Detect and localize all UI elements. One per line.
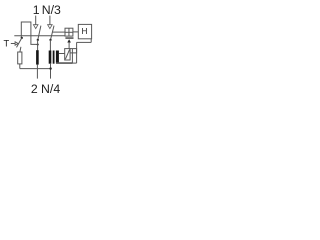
wire bus — [14, 35, 65, 37]
node junction S2 — [49, 39, 51, 41]
regulator small square pair — [70, 49, 77, 53]
wire transformer to lamp box — [73, 31, 78, 33]
svg-text:1: 1 — [33, 3, 40, 17]
svg-text:H: H — [81, 27, 87, 36]
svg-text:T: T — [3, 39, 9, 49]
switch contact S1 blade — [38, 26, 41, 40]
wire choke D to regulator — [59, 53, 65, 55]
bar under transformer box — [65, 37, 73, 38]
regulator diagonal — [65, 49, 69, 59]
wire bottom rail left — [20, 68, 51, 70]
node junction bridge to S1 wire — [37, 43, 39, 45]
winding bar C — [53, 51, 55, 64]
node junction bottom rail — [49, 67, 51, 69]
wire S1 to choke L1 — [37, 40, 39, 51]
wire S2 to converter box — [52, 31, 65, 33]
wire bar A to terminal 2 — [36, 65, 38, 79]
transformer box with cross — [65, 28, 73, 36]
lamp box H — [78, 24, 91, 38]
wire resistor bottom — [19, 64, 21, 69]
wire lamp branch vertical — [76, 42, 78, 63]
svg-text:N/3: N/3 — [42, 3, 61, 17]
node junction S1 — [37, 39, 39, 41]
wire bridge jumper — [21, 22, 37, 44]
winding bar A — [36, 50, 39, 64]
wire S2 to winding W1 — [49, 40, 51, 51]
resistor R1 — [18, 52, 22, 64]
wire feed L down from terminal 1 — [35, 16, 37, 25]
wire lamp return top — [77, 41, 92, 43]
wire bar D to lamp return thick — [56, 62, 73, 64]
wire feed N down from terminal N/3 — [49, 16, 51, 25]
transformer box cross horizontal — [65, 31, 73, 33]
node junction pushbutton top — [21, 37, 23, 39]
svg-text:N/4: N/4 — [41, 82, 60, 96]
arrowhead control up (filled) — [67, 39, 71, 42]
winding bar D — [56, 51, 59, 64]
winding bar B — [49, 51, 52, 64]
wire bar B to terminal N/4 — [50, 64, 52, 79]
wire resistor top stub — [20, 47, 21, 52]
wire lamp box to return — [90, 39, 92, 43]
regulator box — [65, 49, 70, 60]
wire actuator T — [11, 43, 15, 45]
svg-text:2: 2 — [31, 82, 38, 96]
wire divider down — [71, 49, 73, 64]
wire control stem — [68, 42, 70, 48]
arrowhead feed L (open) — [33, 25, 38, 29]
switch contact S2 blade — [51, 26, 55, 40]
arrowhead feed N (open) — [48, 25, 53, 29]
switch contact pushbutton T blade — [17, 38, 22, 48]
transformer box cross vertical — [68, 28, 70, 36]
wire lamp return lower — [73, 62, 77, 64]
arrowhead actuator T (open) — [15, 42, 18, 45]
